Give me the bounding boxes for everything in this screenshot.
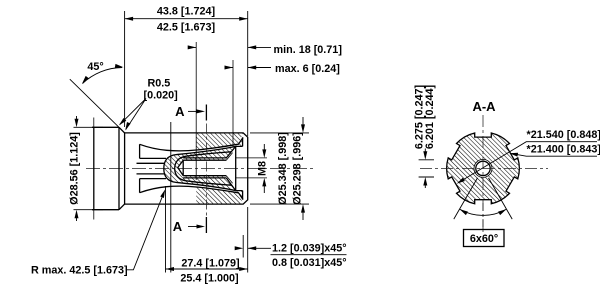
centerline axis [86,168,314,170]
ext line left [124,11,126,127]
leader R0.5 [120,99,146,130]
svg-text:[0.020]: [0.020] [144,90,178,102]
chamfer construction line [70,79,119,127]
dim M8 arrows [263,144,265,193]
svg-text:A: A [173,219,183,234]
svg-text:6.201 [0.244]: 6.201 [0.244] [424,85,436,149]
angle arc 45 [83,68,123,84]
leader 21.400 [512,154,598,157]
svg-text:A-A: A-A [472,99,496,114]
svg-text:27.4 [1.079]: 27.4 [1.079] [181,257,239,269]
svg-text:Ø28.56 [1.124]: Ø28.56 [1.124] [68,132,80,205]
drill point cone [178,160,183,176]
chamfer dim divider [271,254,347,256]
chamfer edges [119,127,125,209]
section ticks [205,105,207,234]
leader Rmax [126,192,164,269]
inner runout curve [175,152,231,185]
core boundary curve [164,146,236,190]
svg-text:42.5 [1.673]: 42.5 [1.673] [157,22,215,34]
slot bottom curve top [140,137,244,150]
ext lines bore right [250,133,309,204]
slot bottom curve bottom [140,186,244,199]
svg-text:43.8 [1.724]: 43.8 [1.724] [157,6,215,18]
svg-text:R max. 42.5 [1.673]: R max. 42.5 [1.673] [31,265,128,277]
ext line thread end [195,42,197,180]
centerline to box [482,203,484,230]
ext lines M8 [236,158,267,178]
angular ext lines [454,178,512,219]
section arrow top [188,110,198,112]
cylinder body [92,127,119,209]
svg-text:Ø25.298 [.996]: Ø25.298 [.996] [292,132,304,205]
recess contour [236,138,243,199]
leader 21.540 [459,142,597,183]
body outline [125,133,248,204]
far slot walls [137,163,165,174]
slot side lines [140,158,166,178]
section arrow bottom [188,226,198,228]
svg-text:6x60°: 6x60° [470,233,498,245]
svg-text:R0.5: R0.5 [148,77,171,89]
dim 43.8 line [125,18,248,20]
thread major circle [474,159,492,177]
section hole clear [474,159,492,177]
label box 6x60 [464,230,505,247]
ext chamfer right [243,207,248,273]
dim 28.56 arrows [76,116,78,221]
entry cone [226,146,235,190]
svg-text:*21.540 [0.848]: *21.540 [0.848] [527,129,600,141]
hatch side view [164,133,243,204]
svg-text:1.2 [0.039]x45°: 1.2 [0.039]x45° [272,243,347,255]
thread minor circle [476,161,490,175]
svg-text:*21.400 [0.843]: *21.400 [0.843] [527,144,600,156]
arrows 6.275 [424,149,426,189]
svg-text:min. 18 [0.71]: min. 18 [0.71] [274,44,342,56]
svg-text:A: A [175,104,185,119]
thread minor lines [183,160,226,176]
slot front edges [139,144,141,192]
svg-text:25.4 [1.000]: 25.4 [1.000] [180,272,238,284]
svg-text:45°: 45° [87,61,103,73]
svg-text:0.8 [0.031]x45°: 0.8 [0.031]x45° [272,257,347,269]
dim 27.4 line [166,268,248,270]
dim max6 [225,67,272,69]
ext line right [247,11,249,136]
crosshair AA [420,115,548,234]
svg-text:max. 6 [0.24]: max. 6 [0.24] [275,63,340,75]
svg-text:Ø25.348 [.998]: Ø25.348 [.998] [277,132,289,205]
angular arc [460,209,507,215]
svg-text:M8: M8 [256,161,268,176]
section line A-A [205,105,207,234]
ext lines slot end [166,122,171,273]
ext line counterbore [232,60,234,147]
cylinder edge ticks [93,118,95,220]
ticks 6.275 [419,160,434,177]
entry cone inner line [226,153,232,184]
tapped hole M8 [183,158,226,178]
ext ticks 28.56 [74,127,104,209]
section disc hatched [447,133,520,204]
dim chamfer arrows [236,247,271,249]
dim min18 [188,46,271,48]
dim bore arrows [302,117,304,220]
